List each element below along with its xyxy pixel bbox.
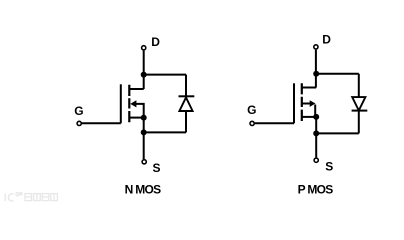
wire: drain node to diode top	[144, 74, 186, 76]
junction: drain node	[141, 72, 147, 78]
transistor Q2 body wire	[302, 103, 310, 105]
watermark logo (faint, bottom-left)	[5, 193, 57, 202]
terminal G (P MOS)	[250, 121, 254, 125]
transistor Q2 drain stub	[302, 87, 316, 89]
junction: drain node	[313, 71, 319, 77]
diode D1 cathode bar	[179, 95, 195, 97]
junction: source-diode node	[313, 130, 319, 136]
wire: gate lead	[82, 122, 121, 124]
svg-text:D: D	[151, 35, 160, 49]
junction: body-source tie	[313, 114, 319, 120]
transistor Q1 gate bar	[120, 84, 122, 123]
wire: diode branch vertical (top)	[358, 74, 360, 97]
wire: D terminal down to drain stub	[143, 51, 145, 89]
transistor Q2 gate bar	[293, 83, 295, 123]
wire: diode bottom back to source node	[144, 131, 186, 133]
transistor Q1 drain stub	[129, 88, 143, 90]
transistor Q1 channel dashes	[128, 85, 130, 123]
diode D1 triangle (anode up)	[179, 97, 192, 111]
wire: source vertical down to S terminal	[315, 117, 317, 157]
junction: body-source tie	[141, 115, 147, 121]
svg-text:P MOS: P MOS	[298, 183, 334, 197]
transistor Q2 channel dashes	[301, 83, 303, 121]
transistor Q2 body arrow (points right, P-channel)	[310, 100, 316, 107]
wire: drain node to diode top	[316, 73, 359, 75]
transistor Q1 body arrow (points left, N-channel)	[130, 100, 136, 107]
diode D2 cathode bar	[352, 110, 368, 112]
svg-text:N MOS: N MOS	[125, 183, 162, 197]
wire: gate lead	[255, 122, 294, 124]
svg-text:D: D	[322, 32, 331, 46]
wire: diode branch vertical (bottom)	[185, 111, 187, 132]
svg-text:G: G	[74, 104, 83, 118]
wire: diode branch vertical (bottom)	[358, 111, 360, 134]
transistor Q1 source stub	[129, 117, 143, 119]
svg-text:G: G	[247, 103, 256, 117]
terminal D (N MOS)	[142, 46, 146, 50]
transistor Q2 body arrow stem down	[314, 105, 316, 117]
wire: diode branch vertical (top)	[185, 75, 187, 97]
svg-text:S: S	[325, 159, 333, 173]
wire: D terminal down to drain stub	[315, 50, 317, 88]
diode D2 triangle (anode up, pointing down)	[352, 97, 365, 110]
junction: source-diode node	[141, 129, 147, 135]
transistor Q2 source stub	[302, 116, 316, 118]
svg-text:S: S	[153, 161, 161, 175]
terminal S (N MOS)	[142, 160, 146, 164]
terminal D (P MOS)	[314, 45, 318, 49]
terminal G (N MOS)	[77, 121, 81, 125]
wire: diode bottom back to source node	[316, 132, 359, 134]
transistor Q1 body wire	[136, 104, 144, 118]
terminal S (P MOS)	[314, 158, 318, 162]
wire: source vertical down to S terminal	[143, 118, 145, 160]
